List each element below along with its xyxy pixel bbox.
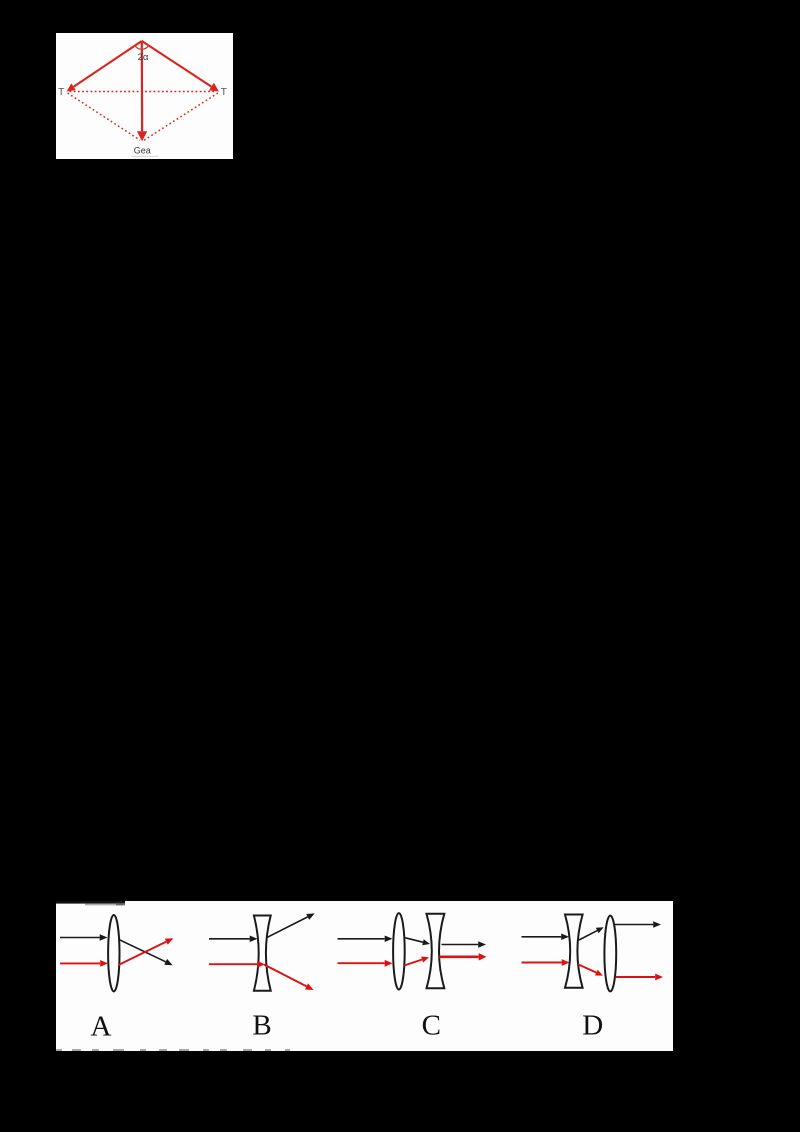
ray A black refracted xyxy=(118,939,172,965)
scan artifact dashes bottom xyxy=(56,1049,62,1050)
angle arc 2-alpha at apex xyxy=(134,45,148,49)
svg-text:Gea: Gea xyxy=(133,145,150,155)
ray B red diverged xyxy=(264,965,314,991)
ray A black incident xyxy=(60,934,108,941)
bottom white panel: lens options A-D xyxy=(56,901,674,1051)
svg-text:A: A xyxy=(90,1011,111,1043)
dashed red line left T to Gea xyxy=(67,93,140,140)
dashed red line Gea to right T xyxy=(144,93,218,140)
svg-text:B: B xyxy=(252,1010,271,1042)
ray A red incident xyxy=(60,960,108,967)
svg-text:T: T xyxy=(58,87,64,98)
lens C2 concave xyxy=(426,914,444,989)
ray C black exit xyxy=(441,941,486,948)
svg-text:D: D xyxy=(582,1010,603,1042)
ray D black exit xyxy=(614,921,661,928)
ray D red incident xyxy=(521,959,569,966)
svg-text:T: T xyxy=(220,87,226,98)
lens D1 concave xyxy=(565,915,583,988)
solid red arrow apex to right T xyxy=(141,41,218,92)
ray C red converging xyxy=(404,957,429,966)
dashed red line left T to right T xyxy=(69,90,215,92)
solid red arrow apex to Gea xyxy=(136,41,146,141)
ray C red exit xyxy=(439,953,486,960)
lens D2 convex (ellipse) xyxy=(604,916,616,992)
top white panel: parallax diagram xyxy=(56,33,233,160)
ray B red incident xyxy=(209,961,265,968)
ray D red exit xyxy=(616,974,663,981)
svg-text:C: C xyxy=(421,1010,440,1042)
faint scan line under Gea xyxy=(131,155,158,156)
ray D black incident xyxy=(521,934,569,941)
ray D black diverged xyxy=(579,927,604,940)
ray A red refracted xyxy=(118,938,173,965)
solid red arrow apex to left T xyxy=(66,41,141,92)
ray D red diverged xyxy=(578,964,603,975)
svg-text:2α: 2α xyxy=(137,52,148,63)
scan artifact band top left xyxy=(56,901,125,904)
lens C1 convex (ellipse) xyxy=(393,913,405,989)
lens A convex (ellipse) xyxy=(108,915,119,991)
ray B black diverged xyxy=(267,913,314,937)
ray B black incident xyxy=(209,936,258,943)
ray C black incident xyxy=(337,936,392,943)
ray C red incident xyxy=(337,960,392,967)
lens B concave xyxy=(253,916,270,991)
ray C black converging xyxy=(405,938,430,945)
